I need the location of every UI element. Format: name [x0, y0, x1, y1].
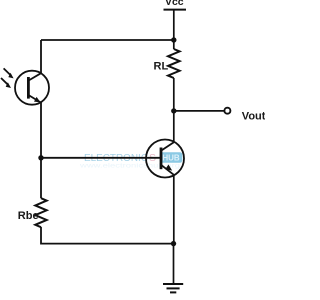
resistor Rbe: [35, 198, 46, 227]
svg-text:HUB: HUB: [162, 154, 180, 163]
wire phototransistor emitter down: [40, 102, 42, 198]
wire emitter down: [173, 175, 175, 244]
terminal Vout: [224, 108, 230, 114]
wire RL top lead: [173, 40, 175, 49]
node bottom junction: [171, 241, 176, 246]
node top junction: [171, 37, 176, 42]
wire Vout horizontal: [174, 110, 225, 112]
svg-text:Vcc: Vcc: [165, 0, 184, 8]
wire RL bottom lead: [173, 78, 175, 111]
wire Vcc to top node: [173, 10, 175, 40]
svg-text:RL: RL: [154, 61, 169, 73]
Vcc terminal bar: [164, 9, 187, 11]
svg-text:Vout: Vout: [242, 110, 265, 122]
wire Rbe bottom: [41, 227, 174, 244]
wire collector up to Vout node: [173, 111, 175, 142]
light arrow 1: [4, 68, 14, 78]
phototransistor Q1: [15, 71, 49, 105]
node base junction: [38, 155, 43, 160]
wire base horizontal: [41, 157, 161, 159]
transistor Q2: [146, 140, 184, 178]
wire to ground: [173, 244, 175, 284]
ground: [163, 284, 183, 292]
svg-text:Rbe: Rbe: [18, 210, 39, 222]
light arrow 2: [1, 78, 11, 88]
resistor RL: [168, 49, 180, 78]
wire top horizontal: [41, 39, 174, 41]
node Vout junction: [171, 108, 176, 113]
wire left vertical to phototransistor collector: [40, 40, 42, 73]
watermark HUB badge: [160, 152, 183, 163]
